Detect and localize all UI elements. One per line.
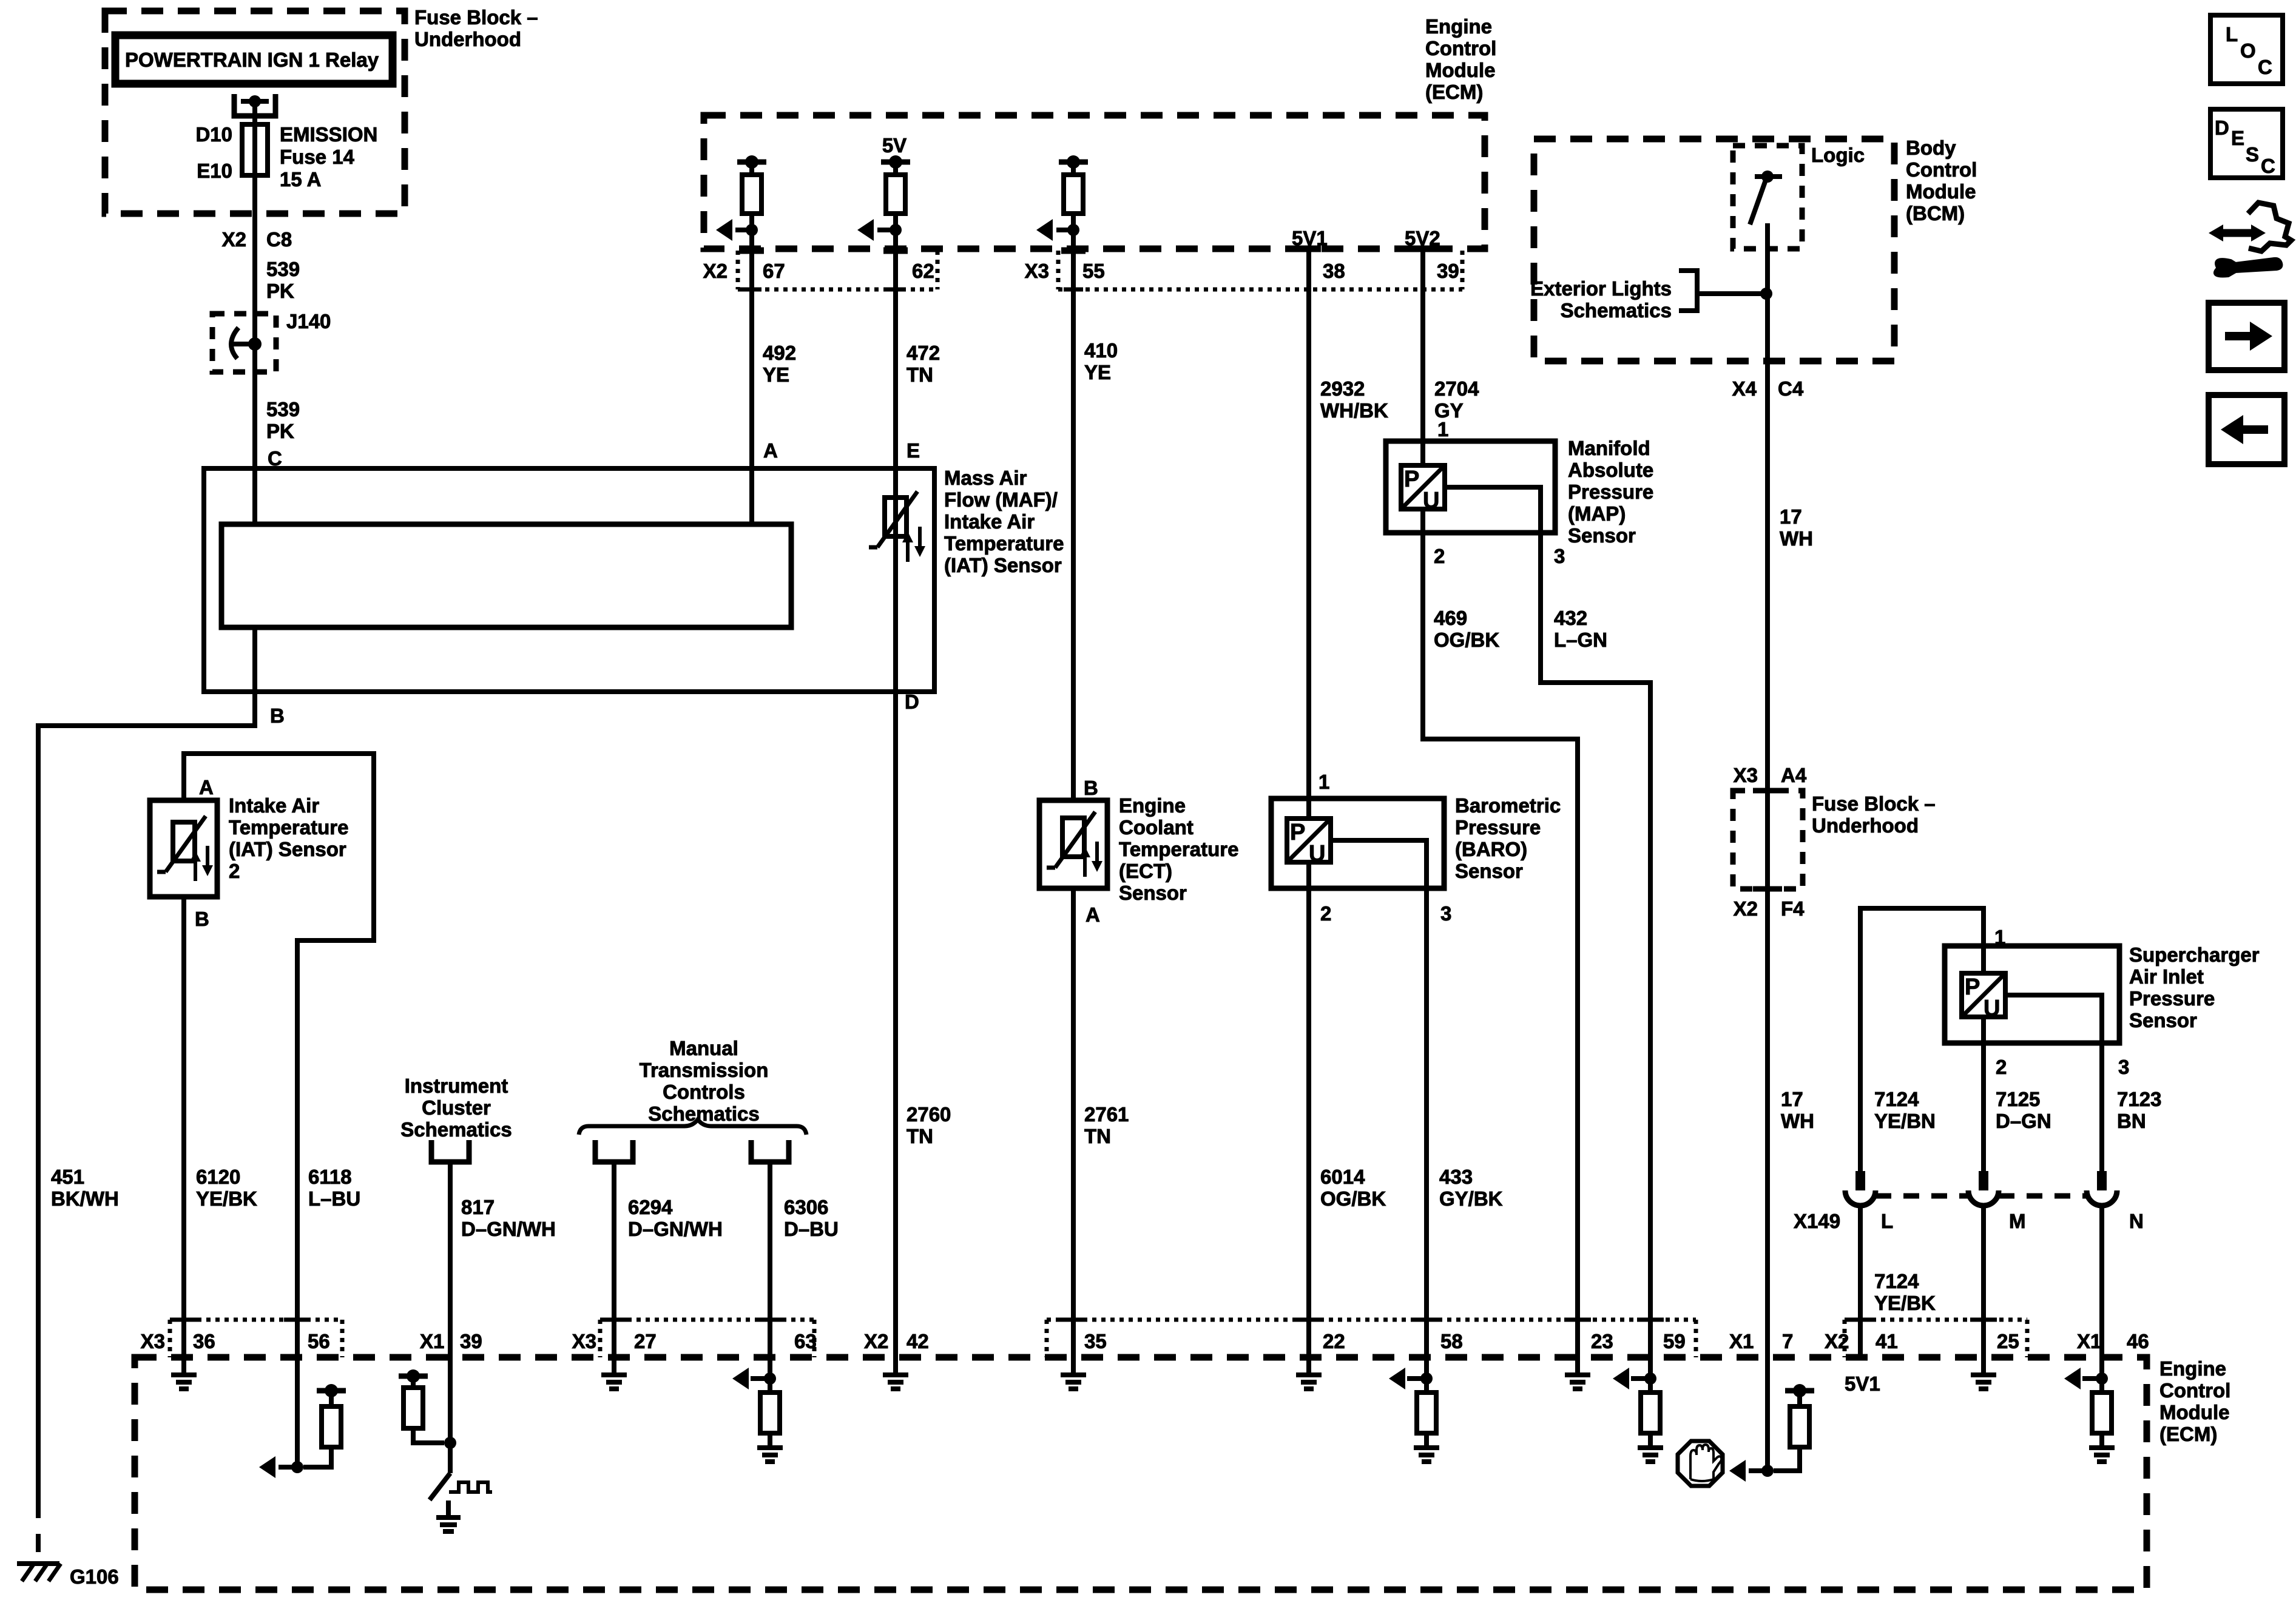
- svg-text:X4: X4: [1732, 377, 1757, 400]
- svg-text:Module: Module: [1906, 180, 1976, 203]
- arrow to other circuits (pin 59): [1631, 1376, 1650, 1381]
- svg-text:D–GN/WH: D–GN/WH: [461, 1218, 556, 1240]
- wire ECM pin 46 internal: [2099, 1357, 2104, 1379]
- svg-text:Fuse Block –: Fuse Block –: [414, 6, 538, 29]
- svg-text:(BCM): (BCM): [1906, 202, 1965, 224]
- svg-text:46: 46: [2127, 1330, 2149, 1352]
- connector to manual transmission (6306): [751, 1140, 789, 1162]
- svg-text:Barometric: Barometric: [1455, 794, 1561, 817]
- wire ECM pin 7 internal: [1765, 1357, 1770, 1471]
- resistor (ECM pin 46): [2092, 1393, 2112, 1433]
- ground (ECM pin 58): [1414, 1445, 1439, 1450]
- svg-text:YE: YE: [1084, 361, 1111, 383]
- svg-text:2: 2: [1320, 902, 1331, 925]
- inline connector X149 terminal L: [1855, 1171, 1865, 1190]
- svg-text:Flow (MAF)/: Flow (MAF)/: [944, 488, 1058, 511]
- svg-text:5V1: 5V1: [1292, 227, 1328, 249]
- svg-text:L–BU: L–BU: [308, 1187, 360, 1210]
- svg-text:59: 59: [1663, 1330, 1686, 1352]
- ground (ECM pin 39 driver): [446, 1501, 451, 1517]
- wire 7123 BN X149 to ECM 46: [2099, 1206, 2104, 1357]
- svg-text:451: 451: [51, 1166, 84, 1188]
- ECM bottom connector X2 dotted box (41,25): [1843, 1320, 1847, 1357]
- resistor (ECM pin 55 pull-up): [1059, 160, 1088, 165]
- ground (ECM pin 35): [1071, 1357, 1076, 1375]
- resistor (ECM pin 58): [1417, 1393, 1436, 1433]
- svg-text:YE/BK: YE/BK: [1874, 1292, 1936, 1314]
- svg-text:TN: TN: [1084, 1125, 1111, 1147]
- svg-text:B: B: [1084, 777, 1098, 799]
- svg-text:Mass Air: Mass Air: [944, 467, 1027, 489]
- wire 432 L-GN MAP 3 to ECM 59: [1541, 533, 1650, 1357]
- MAF/IAT sensor inner module box: [221, 524, 791, 627]
- ECM bottom connector X3 dotted box (36,56): [168, 1320, 172, 1357]
- svg-text:433: 433: [1439, 1166, 1473, 1188]
- icon forward arrow box: [2209, 303, 2284, 370]
- svg-text:Body: Body: [1906, 137, 1956, 159]
- svg-text:3: 3: [1440, 902, 1451, 925]
- svg-text:3: 3: [2118, 1056, 2129, 1078]
- hand caution icon: [1678, 1441, 1723, 1486]
- svg-text:35: 35: [1084, 1330, 1107, 1352]
- svg-text:C4: C4: [1778, 377, 1804, 400]
- svg-text:7124: 7124: [1874, 1270, 1919, 1292]
- wire MAP pin 3 from U output: [1445, 487, 1541, 533]
- svg-text:Pressure: Pressure: [1455, 816, 1541, 839]
- supercharger air inlet pressure sensor box: [1945, 946, 2119, 1043]
- svg-text:Intake Air: Intake Air: [229, 794, 319, 817]
- svg-text:X3: X3: [1025, 260, 1049, 282]
- tick marks at wire crossings (bottom row): [171, 1318, 197, 1322]
- svg-text:U: U: [1309, 841, 1325, 866]
- BARO P/U transducer: [1287, 819, 1331, 862]
- svg-text:X2: X2: [1734, 897, 1758, 920]
- arrow to other circuits (pin 62): [877, 228, 896, 232]
- wire 6014 OG/BK BARO 2 to ECM 22: [1306, 888, 1311, 1357]
- wire exterior lights to BCM output: [1697, 291, 1766, 296]
- svg-text:27: 27: [634, 1330, 657, 1352]
- svg-text:Fuse 14: Fuse 14: [280, 146, 355, 168]
- svg-text:Control: Control: [1425, 37, 1496, 59]
- svg-text:1: 1: [1437, 418, 1448, 441]
- svg-text:7123: 7123: [2117, 1088, 2161, 1110]
- svg-text:PK: PK: [266, 280, 294, 302]
- svg-text:1: 1: [1319, 771, 1329, 793]
- svg-text:Intake Air: Intake Air: [944, 510, 1035, 533]
- signal arrows (MAF): [906, 538, 910, 562]
- svg-text:C: C: [2261, 155, 2275, 177]
- svg-text:F4: F4: [1781, 897, 1805, 920]
- svg-text:D–GN: D–GN: [1996, 1110, 2051, 1132]
- svg-text:X3: X3: [141, 1330, 165, 1352]
- svg-text:Engine: Engine: [1119, 794, 1186, 817]
- ECM top connector X3 dotted box: [1056, 251, 1061, 289]
- switch (ECM pin 39 driver): [430, 1473, 450, 1500]
- wire 539 PK J140 to MAF C: [252, 342, 257, 527]
- relay K: POWERTRAIN IGN 1 Relay box: [115, 35, 393, 84]
- inline connector X149 terminal N: [2097, 1171, 2107, 1190]
- wire 6118 path IAT A jog: [184, 754, 374, 1357]
- svg-text:Engine: Engine: [1425, 15, 1492, 38]
- icon DESC box: [2210, 109, 2283, 178]
- IAT sensor box: [150, 800, 217, 897]
- svg-text:Control: Control: [2159, 1379, 2230, 1402]
- resistor (ECM pin 7 pull-up): [1785, 1388, 1814, 1394]
- svg-text:5V: 5V: [882, 134, 907, 157]
- wire relay to fuse: [252, 101, 257, 124]
- svg-text:36: 36: [193, 1330, 215, 1352]
- svg-text:492: 492: [763, 342, 796, 364]
- svg-text:5V1: 5V1: [1845, 1372, 1880, 1395]
- ECT sensor box: [1039, 800, 1107, 888]
- svg-text:472: 472: [907, 342, 940, 364]
- svg-text:J140: J140: [286, 310, 331, 333]
- relay output terminal bracket: [234, 94, 275, 116]
- wire ECM pin 58 internal: [1424, 1357, 1429, 1379]
- BCM dashed box: [1534, 139, 1894, 361]
- wire 2761 TN ECT A to ECM 35: [1071, 888, 1076, 1357]
- svg-text:P: P: [1290, 820, 1305, 845]
- resistor (ECM pin 56 pull-up): [317, 1388, 346, 1394]
- wire 451 BK/WH horizontal run: [38, 723, 257, 728]
- resistor (ECM pin 39 pull-up): [399, 1374, 428, 1379]
- svg-text:U: U: [1423, 488, 1439, 513]
- brace: [579, 1119, 806, 1135]
- svg-text:6294: 6294: [628, 1196, 673, 1218]
- svg-text:X3: X3: [1734, 764, 1758, 786]
- svg-text:Schematics: Schematics: [400, 1118, 512, 1141]
- ground G106 chassis symbol: [17, 1561, 59, 1566]
- wire inside MAF E to D: [893, 468, 898, 692]
- svg-text:2704: 2704: [1434, 377, 1479, 400]
- logic switch T-bar: [1755, 174, 1782, 179]
- signal arrows (ECT): [1083, 852, 1087, 877]
- wire 6120 YE/BK IAT B to ECM 36: [181, 897, 186, 1357]
- wire 7124 YE/BK X149 to ECM 41: [1858, 1206, 1863, 1357]
- svg-text:Sensor: Sensor: [1119, 882, 1187, 904]
- ground (ECM pin 25): [1981, 1357, 1986, 1375]
- svg-text:G106: G106: [70, 1565, 119, 1588]
- ECM bottom connector X3 dotted box (27,63): [598, 1320, 603, 1357]
- svg-text:Pressure: Pressure: [2129, 987, 2215, 1010]
- svg-text:2932: 2932: [1320, 377, 1365, 400]
- svg-text:7: 7: [1782, 1330, 1793, 1352]
- svg-text:56: 56: [308, 1330, 330, 1352]
- svg-text:Logic: Logic: [1811, 144, 1865, 166]
- svg-text:PK: PK: [266, 420, 294, 442]
- svg-text:M: M: [2009, 1210, 2026, 1232]
- wire 817 D-GN/WH to ECM 39: [448, 1162, 453, 1357]
- svg-text:YE/BN: YE/BN: [1874, 1110, 1936, 1132]
- arrow to other circuits (pin 55): [1056, 228, 1073, 232]
- wire supercharger pin 1 feed jog: [1860, 908, 1984, 1171]
- svg-text:TN: TN: [907, 1125, 933, 1147]
- svg-text:Manual: Manual: [669, 1037, 738, 1059]
- svg-text:E: E: [907, 439, 920, 462]
- svg-text:P: P: [1404, 467, 1419, 492]
- svg-text:Underhood: Underhood: [1812, 814, 1919, 837]
- icon diagnostic tool: [2222, 229, 2252, 237]
- X149 dashed link line: [1876, 1193, 1968, 1199]
- svg-text:S: S: [2246, 143, 2259, 166]
- wire supercharger pin 2: [1981, 1017, 1986, 1171]
- svg-text:X1: X1: [420, 1330, 444, 1352]
- ground (ECM pin 46): [2089, 1445, 2115, 1450]
- ground (ECM pin 59): [1638, 1445, 1663, 1450]
- svg-text:BK/WH: BK/WH: [51, 1187, 119, 1210]
- exterior lights bracket: [1679, 271, 1697, 311]
- svg-text:(BARO): (BARO): [1455, 838, 1527, 860]
- wire 17 WH fuse block to ECM 7: [1765, 791, 1770, 1357]
- inline connector X149 terminal M: [1979, 1171, 1988, 1190]
- wire BARO pin 3 from U output: [1331, 840, 1427, 888]
- svg-text:6306: 6306: [784, 1196, 828, 1218]
- MAF/IAT sensor outer box: [204, 468, 934, 692]
- wire 6306 D-BU to ECM 63: [768, 1162, 772, 1357]
- wire 7125 D-GN X149 to ECM 25: [1981, 1206, 1986, 1357]
- relay output node T-bar: [241, 99, 269, 104]
- tick marks fuse block wire crossings: [1753, 788, 1782, 794]
- svg-text:39: 39: [1437, 260, 1459, 282]
- svg-text:7124: 7124: [1874, 1088, 1919, 1110]
- svg-text:D–GN/WH: D–GN/WH: [628, 1218, 723, 1240]
- svg-text:WH: WH: [1780, 527, 1813, 550]
- wire 492 YE MAF A to ECM 67: [749, 230, 754, 524]
- svg-text:D–BU: D–BU: [784, 1218, 839, 1240]
- svg-text:Sensor: Sensor: [1455, 860, 1523, 882]
- svg-text:17: 17: [1781, 1088, 1803, 1110]
- svg-text:D: D: [2215, 116, 2229, 139]
- svg-text:Cluster: Cluster: [422, 1096, 491, 1119]
- svg-text:Temperature: Temperature: [229, 816, 348, 839]
- connector to manual transmission (6294): [595, 1140, 633, 1162]
- svg-text:X2: X2: [222, 228, 246, 251]
- svg-text:432: 432: [1554, 607, 1587, 629]
- svg-text:A: A: [1086, 903, 1100, 926]
- svg-text:Supercharger: Supercharger: [2129, 944, 2260, 966]
- ECM top connector X2 dotted box: [736, 251, 740, 289]
- wire supercharger pin 3 from U output: [2005, 995, 2102, 1171]
- svg-text:GY/BK: GY/BK: [1439, 1187, 1503, 1210]
- ECM bottom dashed box: [135, 1357, 2147, 1590]
- wire 539 PK fuse to J140: [252, 175, 257, 344]
- svg-text:2: 2: [1996, 1056, 2007, 1078]
- svg-text:Coolant: Coolant: [1119, 816, 1194, 839]
- svg-text:YE: YE: [763, 363, 789, 386]
- svg-text:2760: 2760: [907, 1103, 951, 1126]
- svg-text:YE/BK: YE/BK: [196, 1187, 257, 1210]
- svg-text:D: D: [905, 690, 919, 713]
- svg-text:Absolute: Absolute: [1568, 459, 1653, 481]
- wire 2932 WH/BK ECM 38 to BARO 1: [1306, 249, 1311, 819]
- svg-text:D10: D10: [195, 123, 232, 146]
- svg-text:N: N: [2129, 1210, 2144, 1232]
- svg-text:OG/BK: OG/BK: [1434, 629, 1499, 651]
- wire 2704 GY ECM 39 to MAP 1: [1420, 249, 1425, 465]
- svg-text:C8: C8: [266, 228, 292, 251]
- connector to instrument cluster: [431, 1140, 469, 1162]
- svg-text:62: 62: [912, 260, 934, 282]
- svg-text:3: 3: [1554, 545, 1565, 567]
- svg-text:(ECT): (ECT): [1119, 860, 1172, 882]
- svg-text:Module: Module: [2159, 1401, 2229, 1423]
- svg-text:58: 58: [1440, 1330, 1463, 1352]
- svg-text:E10: E10: [197, 160, 232, 182]
- svg-text:O: O: [2240, 39, 2256, 62]
- svg-text:Exterior Lights: Exterior Lights: [1530, 277, 1672, 300]
- svg-text:Air Inlet: Air Inlet: [2129, 965, 2204, 988]
- svg-text:25: 25: [1997, 1330, 2019, 1352]
- svg-text:Instrument: Instrument: [405, 1075, 508, 1097]
- splice J140 dashed box: [212, 314, 276, 372]
- wire ECM pin 63 internal: [768, 1357, 772, 1379]
- svg-text:6014: 6014: [1320, 1166, 1365, 1188]
- svg-text:469: 469: [1434, 607, 1467, 629]
- ECM top dashed box: [704, 115, 1485, 249]
- wire 2760 TN MAF D to ECM 42: [893, 692, 898, 1357]
- svg-text:6120: 6120: [196, 1166, 240, 1188]
- svg-text:U: U: [1984, 996, 2000, 1021]
- ECT thermistor symbol: [1062, 818, 1084, 857]
- wire 451 BK/WH vertical run: [36, 723, 41, 1500]
- svg-text:B: B: [270, 704, 285, 727]
- BARO sensor box: [1271, 798, 1444, 888]
- svg-text:P: P: [1965, 974, 1980, 1000]
- wire 17 WH BCM to C4: [1765, 223, 1770, 791]
- svg-text:X1: X1: [1729, 1330, 1754, 1352]
- ECM bottom connector X3 dotted box (35-59): [1045, 1320, 1049, 1357]
- svg-text:67: 67: [763, 260, 785, 282]
- icon LOC box: [2210, 15, 2283, 84]
- svg-text:(ECM): (ECM): [1425, 81, 1483, 103]
- svg-text:Pressure: Pressure: [1568, 481, 1653, 503]
- svg-text:X2: X2: [1825, 1330, 1849, 1352]
- svg-text:C: C: [2258, 56, 2272, 78]
- wire MAF pin B to corner: [252, 627, 257, 726]
- wire ECM pin 56 internal: [295, 1357, 300, 1467]
- resistor (ECM pin 63): [760, 1393, 780, 1433]
- svg-text:39: 39: [460, 1330, 482, 1352]
- svg-text:X3: X3: [572, 1330, 596, 1352]
- wire 472 TN ECM 62 to MAF E: [893, 230, 898, 468]
- svg-text:Transmission: Transmission: [640, 1059, 769, 1081]
- svg-text:OG/BK: OG/BK: [1320, 1187, 1386, 1210]
- svg-text:7125: 7125: [1996, 1088, 2040, 1110]
- svg-text:EMISSION: EMISSION: [280, 123, 377, 146]
- junction dot (BCM output): [1760, 288, 1772, 300]
- signal arrows (IAT): [194, 857, 197, 881]
- wire 410 YE ECM 55 to ECT B: [1071, 230, 1076, 800]
- svg-text:(ECM): (ECM): [2159, 1423, 2217, 1445]
- svg-text:Temperature: Temperature: [1119, 838, 1238, 860]
- wire 6294 D-GN/WH to ECM 27: [612, 1162, 616, 1357]
- svg-text:X2: X2: [703, 260, 728, 282]
- fuse block underhood (top) dashed box: [105, 11, 405, 214]
- svg-text:Engine: Engine: [2159, 1357, 2226, 1380]
- ground (ECM pin 22): [1306, 1357, 1311, 1375]
- svg-text:2761: 2761: [1084, 1103, 1129, 1126]
- svg-text:A4: A4: [1781, 764, 1807, 786]
- svg-text:WH/BK: WH/BK: [1320, 399, 1388, 422]
- svg-text:(MAP): (MAP): [1568, 502, 1626, 525]
- svg-text:Sensor: Sensor: [1568, 524, 1636, 547]
- splice J140 junction dot: [248, 337, 262, 351]
- IAT thermistor symbol: [173, 822, 195, 861]
- svg-text:POWERTRAIN IGN 1 Relay: POWERTRAIN IGN 1 Relay: [125, 49, 379, 71]
- arrow to other circuits (pin 63): [751, 1376, 770, 1381]
- tick marks at wire crossings (top row): [740, 248, 764, 254]
- svg-text:TN: TN: [907, 363, 933, 386]
- svg-text:2: 2: [1434, 545, 1445, 567]
- svg-text:WH: WH: [1781, 1110, 1814, 1132]
- svg-text:63: 63: [794, 1330, 817, 1352]
- svg-text:55: 55: [1082, 260, 1105, 282]
- ground (ECM pin 42): [893, 1357, 898, 1375]
- svg-text:42: 42: [907, 1330, 929, 1352]
- svg-text:X2: X2: [864, 1330, 888, 1352]
- MAP sensor box: [1386, 441, 1555, 533]
- svg-text:Schematics: Schematics: [1561, 299, 1672, 322]
- wire 469 OG/BK MAP 2 to ECM 23: [1423, 533, 1578, 1357]
- svg-text:L: L: [1881, 1210, 1893, 1232]
- svg-text:Temperature: Temperature: [944, 532, 1064, 555]
- fuse F14 EMISSION 15A: [242, 124, 268, 175]
- MAP P/U transducer: [1401, 465, 1445, 509]
- svg-text:B: B: [195, 908, 209, 930]
- svg-text:Module: Module: [1425, 59, 1495, 81]
- ground (ECM pin 27): [612, 1357, 616, 1375]
- svg-text:Controls: Controls: [663, 1081, 745, 1103]
- BCM logic dashed box: [1733, 146, 1802, 249]
- svg-text:X1: X1: [2077, 1330, 2101, 1352]
- svg-text:L: L: [2226, 23, 2238, 46]
- PWM signal symbol: [449, 1482, 492, 1492]
- svg-text:E: E: [2231, 127, 2244, 149]
- arrow to other circuits (pin 67): [735, 228, 752, 232]
- svg-text:Control: Control: [1906, 158, 1977, 181]
- wire ECM pin 59 internal: [1648, 1357, 1653, 1379]
- svg-text:Fuse Block –: Fuse Block –: [1812, 792, 1936, 815]
- svg-text:22: 22: [1323, 1330, 1345, 1352]
- svg-text:A: A: [199, 776, 214, 798]
- wire BARO pin 2 internal: [1306, 862, 1311, 888]
- svg-text:6118: 6118: [308, 1166, 352, 1188]
- ground (ECM pin 36): [181, 1357, 186, 1375]
- resistor (ECM pin 67 pull-up): [737, 160, 766, 165]
- resistor (ECM pin 59): [1641, 1393, 1660, 1433]
- svg-text:410: 410: [1084, 339, 1118, 362]
- arrow to other circuits (pin 56): [279, 1465, 297, 1470]
- svg-text:Schematics: Schematics: [648, 1102, 759, 1125]
- svg-text:17: 17: [1780, 505, 1802, 528]
- svg-text:Sensor: Sensor: [2129, 1009, 2197, 1031]
- resistor (ECM pin 62 pull-up): [881, 160, 910, 165]
- svg-text:2: 2: [229, 860, 240, 882]
- fuse block underhood (mid) dashed box: [1733, 791, 1803, 889]
- wire MAP pin 2 internal: [1420, 509, 1425, 533]
- svg-text:L–GN: L–GN: [1554, 629, 1607, 651]
- svg-text:41: 41: [1876, 1330, 1898, 1352]
- svg-text:539: 539: [266, 398, 300, 420]
- svg-text:(IAT) Sensor: (IAT) Sensor: [229, 838, 346, 860]
- wire 433 GY/BK BARO 3 to ECM 58: [1424, 888, 1429, 1357]
- wire ECM pin 39 internal: [448, 1357, 453, 1473]
- arrow to other circuits (pin 46): [2082, 1376, 2102, 1381]
- ground (ECM pin 63): [757, 1445, 783, 1450]
- svg-text:A: A: [763, 439, 778, 462]
- svg-text:15 A: 15 A: [280, 168, 321, 191]
- svg-text:539: 539: [266, 258, 300, 280]
